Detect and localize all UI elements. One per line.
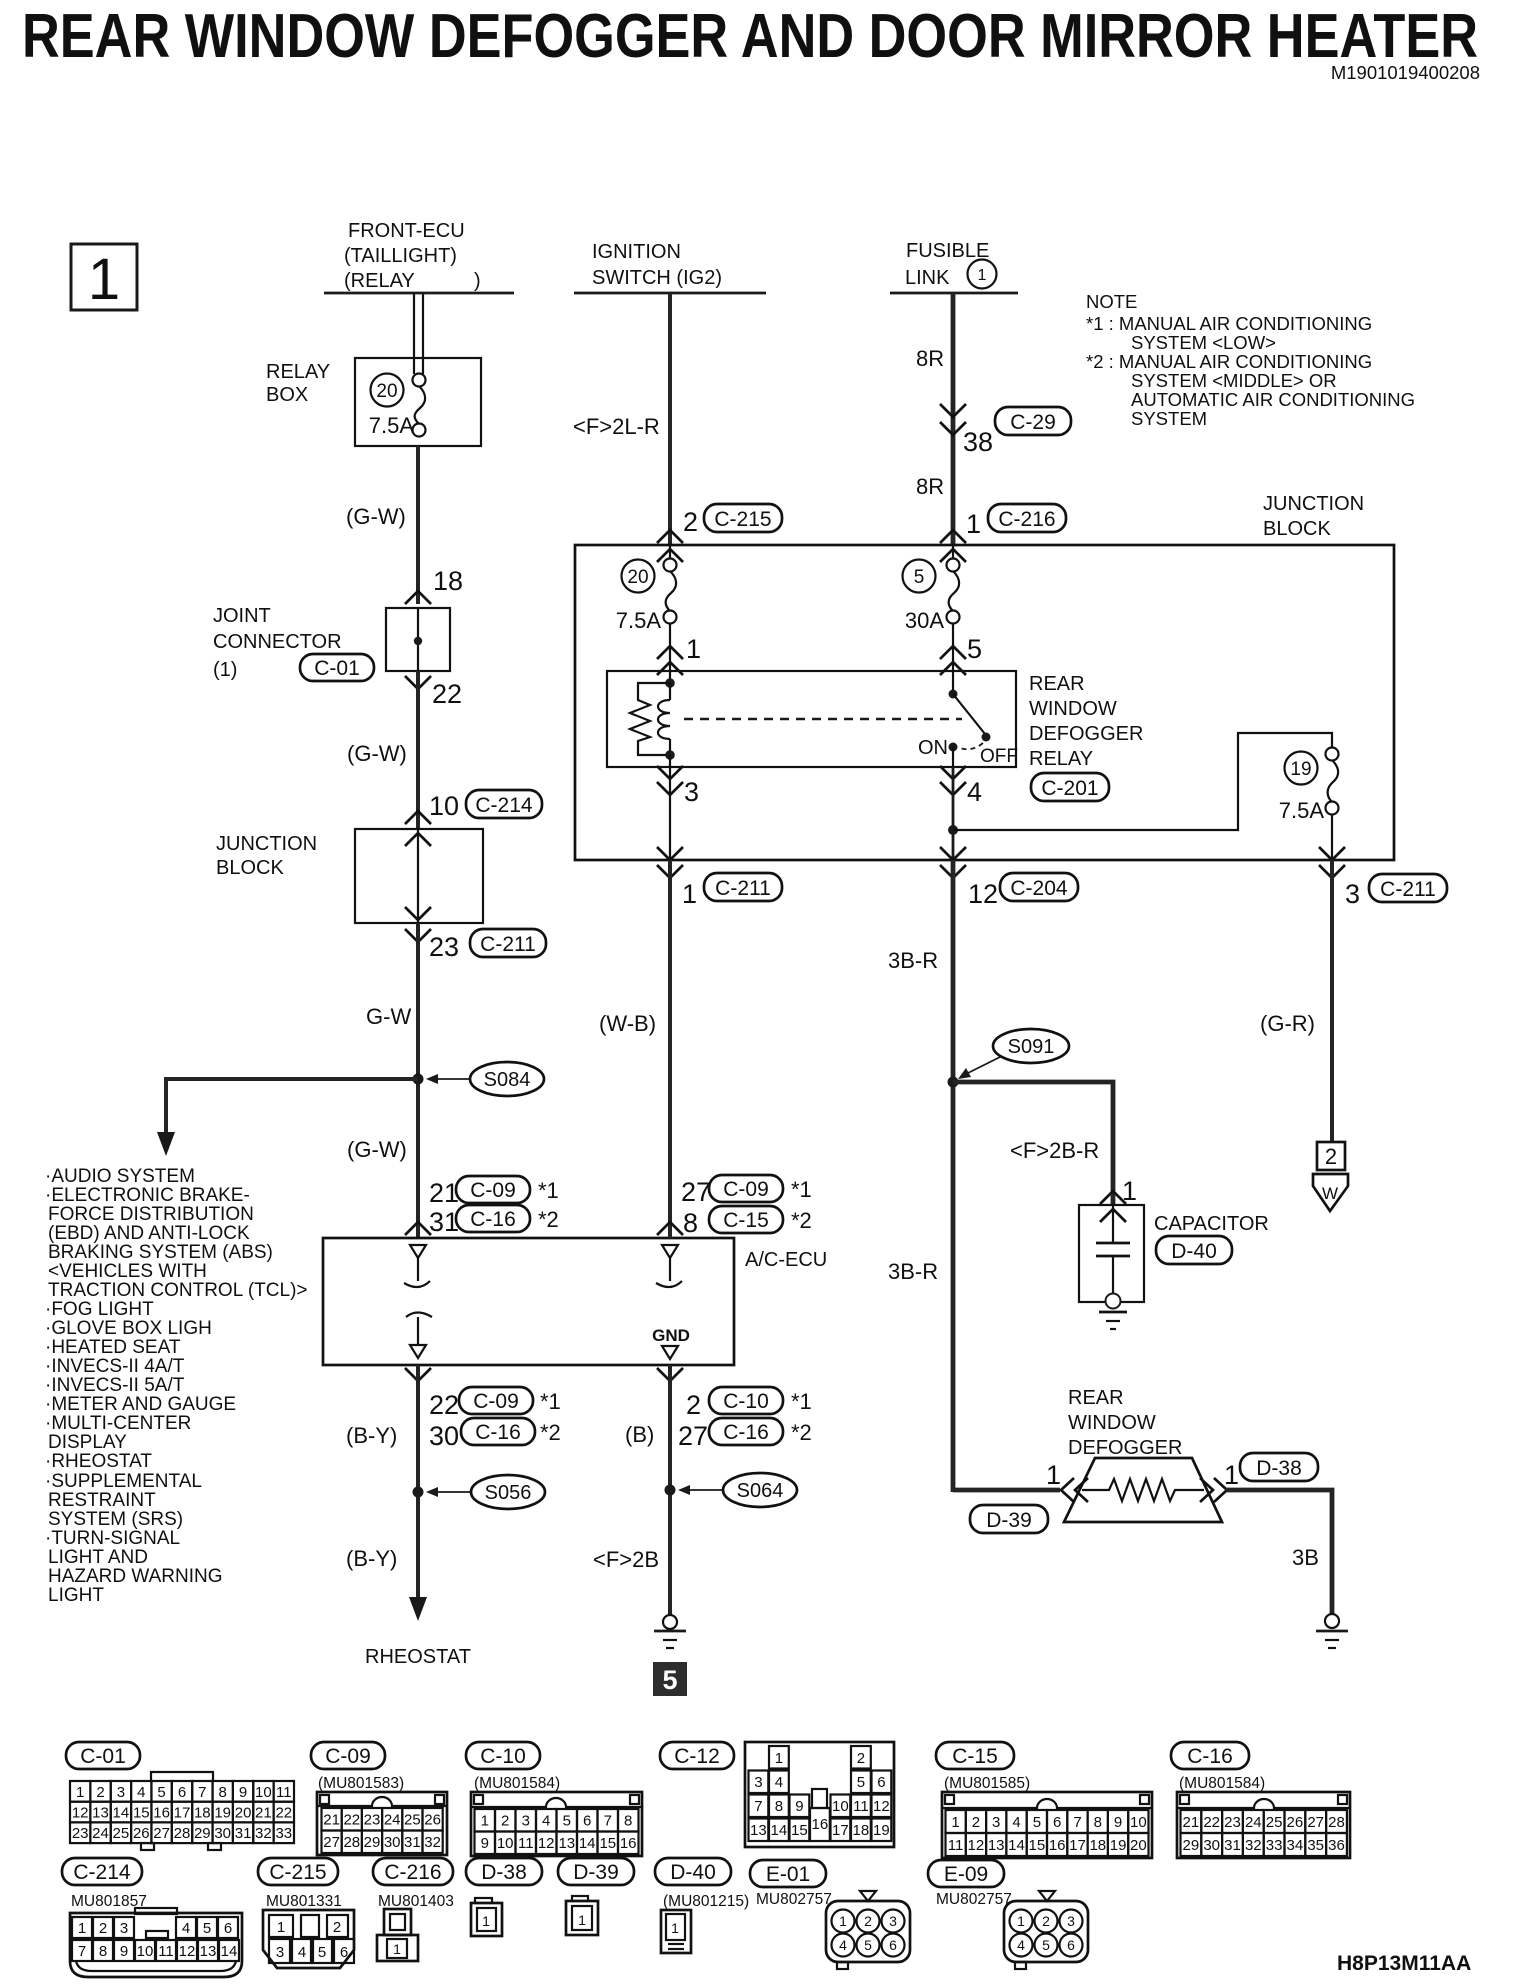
connector C-214 pin view [70,1908,242,1977]
svg-text:15: 15 [791,1822,808,1839]
splice S091 [948,1029,1070,1088]
svg-text:CONNECTOR: CONNECTOR [213,631,342,653]
relay box outline [355,358,481,446]
svg-text:23: 23 [429,932,459,962]
svg-text:13: 13 [92,1805,109,1822]
svg-text:21: 21 [255,1805,272,1822]
connector table badge D-40 [655,1858,731,1885]
RELAY BOX label [266,361,330,406]
svg-text:21: 21 [323,1812,340,1829]
connector table badge C-16 [1171,1742,1249,1769]
svg-text:18: 18 [433,566,463,596]
wire joint connector to junction block (G-W) [416,671,420,829]
svg-text:9: 9 [120,1943,128,1960]
svg-text:6: 6 [340,1944,348,1961]
svg-text:22: 22 [432,679,462,709]
svg-text:9: 9 [239,1784,247,1801]
svg-text:26: 26 [1287,1814,1304,1831]
svg-text:7.5A: 7.5A [616,608,662,633]
svg-text:<VEHICLES WITH: <VEHICLES WITH [48,1261,207,1282]
svg-text:FORCE DISTRIBUTION: FORCE DISTRIBUTION [48,1204,254,1225]
IGNITION SWITCH (IG2) label [592,241,722,289]
svg-text:DEFOGGER: DEFOGGER [1029,723,1143,745]
svg-text:S056: S056 [485,1482,532,1504]
svg-text:7: 7 [198,1784,206,1801]
svg-text:5: 5 [563,1813,571,1830]
svg-text:5: 5 [967,634,982,664]
svg-text:8: 8 [775,1798,783,1815]
NOTE block [1086,291,1415,429]
svg-text:12: 12 [72,1805,89,1822]
connector E-09 pin view [1004,1891,1088,1969]
svg-text:1: 1 [482,1913,490,1929]
svg-text:10: 10 [497,1835,514,1852]
svg-text:REAR: REAR [1068,1387,1124,1409]
connector C-10 pin view [471,1792,642,1856]
svg-text:8: 8 [99,1943,107,1960]
ignition switch supply bar [574,292,766,295]
svg-text:C-214: C-214 [73,1861,131,1884]
svg-text:6: 6 [889,1937,897,1953]
svg-text:20: 20 [235,1805,252,1822]
chevrons at C-29 crossing [940,404,966,435]
svg-text:5: 5 [914,567,925,588]
pins 21/31 with badges C-09 / C-16 [429,1176,559,1237]
svg-text:3B-R: 3B-R [888,1259,938,1284]
svg-text:19: 19 [214,1805,231,1822]
svg-text:2: 2 [96,1784,104,1801]
svg-text:C-16: C-16 [470,1208,516,1231]
svg-text:9: 9 [481,1835,489,1852]
svg-text:BLOCK: BLOCK [1263,518,1331,540]
svg-text:*2 : MANUAL AIR CONDITIONING: *2 : MANUAL AIR CONDITIONING [1086,351,1372,372]
svg-text:4: 4 [137,1784,145,1801]
relay coil and resistor [630,671,675,767]
svg-text:C-15: C-15 [952,1745,998,1768]
svg-text:·HEATED SEAT: ·HEATED SEAT [45,1337,181,1358]
svg-text:(MU801584): (MU801584) [1179,1775,1265,1792]
svg-text:ON: ON [918,737,948,759]
svg-text:32: 32 [1245,1837,1262,1854]
svg-text:1: 1 [839,1913,847,1929]
svg-text:32: 32 [424,1834,441,1851]
chevrons leaving junction block pin 3 C-211 [1319,847,1345,878]
connector table badge C-10 [466,1742,540,1769]
svg-text:7: 7 [78,1943,86,1960]
svg-text:17: 17 [1069,1837,1086,1854]
svg-text:·TURN-SIGNAL: ·TURN-SIGNAL [45,1528,180,1549]
svg-text:D-40: D-40 [670,1861,716,1884]
chevrons entering junction block (left) [405,811,431,846]
svg-text:23: 23 [72,1825,89,1842]
svg-text:2: 2 [683,507,698,537]
svg-text:(MU801215): (MU801215) [663,1893,749,1910]
svg-text:2: 2 [686,1390,701,1420]
svg-text:DEFOGGER: DEFOGGER [1068,1437,1182,1459]
connector table badge C-216 [373,1858,453,1885]
joint connector box [386,608,450,671]
ground symbol (defogger) [1316,1614,1348,1648]
relay actuation dashed line [684,718,962,720]
svg-text:A/C-ECU: A/C-ECU [745,1249,827,1271]
svg-text:9: 9 [795,1798,803,1815]
svg-text:19: 19 [1290,759,1311,780]
branch wire to capacitor [953,1082,1113,1205]
pin 2 and badge C-215 [683,504,782,537]
svg-text:RESTRAINT: RESTRAINT [48,1490,156,1511]
svg-text:W: W [1322,1184,1338,1203]
A/C-ECU internal contact (left pin out) [406,1313,432,1359]
connector table badge E-09 [928,1860,1004,1887]
svg-text:1: 1 [775,1750,783,1767]
svg-text:18: 18 [1089,1837,1106,1854]
svg-text:25: 25 [113,1825,130,1842]
splice S084 [413,1062,545,1096]
svg-text:10: 10 [1130,1814,1147,1831]
svg-text:*2: *2 [791,1420,812,1445]
svg-text:2: 2 [333,1919,341,1936]
svg-text:19: 19 [1110,1837,1127,1854]
svg-text:3B: 3B [1292,1545,1319,1570]
svg-text:16: 16 [620,1835,637,1852]
connector badge D-38 [1240,1453,1318,1481]
fuse 19 (7.5A) in junction block [1279,748,1339,861]
svg-text:4: 4 [1012,1814,1020,1831]
svg-text:NOTE: NOTE [1086,291,1137,312]
A/C-ECU box [323,1238,734,1365]
svg-text:1: 1 [1224,1460,1239,1490]
svg-text:C-10: C-10 [480,1745,526,1768]
svg-text:29: 29 [364,1834,381,1851]
svg-text:6: 6 [583,1813,591,1830]
svg-text:MU801331: MU801331 [266,1893,342,1910]
svg-text:30: 30 [429,1421,459,1451]
junction block box (main) [575,545,1394,860]
svg-text:14: 14 [113,1805,130,1822]
svg-text:31: 31 [235,1825,252,1842]
svg-text:6: 6 [1053,1814,1061,1831]
A/C-ECU internal contact (left pin in) [404,1245,430,1287]
svg-text:C-215: C-215 [269,1861,326,1884]
svg-text:C-09: C-09 [723,1178,769,1201]
svg-text:1: 1 [393,1941,401,1957]
connector table badge D-39 [558,1858,634,1885]
svg-text:26: 26 [133,1825,150,1842]
svg-text:4: 4 [182,1920,190,1937]
svg-text:29: 29 [1183,1837,1200,1854]
svg-text:*1: *1 [791,1389,812,1414]
svg-text:5: 5 [1033,1814,1041,1831]
connector table badge C-15 [936,1742,1014,1769]
svg-text:S064: S064 [737,1480,784,1502]
svg-text:18: 18 [853,1822,870,1839]
svg-text:C-29: C-29 [1010,411,1056,434]
chevrons into relay coil side [657,646,683,675]
svg-text:*2: *2 [540,1420,561,1445]
chevron out of A/C-ECU GND [657,1368,683,1381]
svg-text:·GLOVE BOX LIGH: ·GLOVE BOX LIGH [45,1318,212,1339]
svg-text:(MU801584): (MU801584) [474,1775,560,1792]
svg-text:11: 11 [158,1943,174,1960]
svg-text:(B): (B) [625,1422,654,1447]
svg-text:(G-W): (G-W) [347,741,407,766]
wire (W-B) junction block to A/C-ECU [668,860,672,1238]
svg-text:1: 1 [978,267,987,284]
svg-text:3: 3 [1345,879,1360,909]
FRONT-ECU (TAILLIGHT RELAY) power source label [344,220,481,292]
svg-text:·RHEOSTAT: ·RHEOSTAT [45,1451,152,1472]
svg-text:SYSTEM (SRS): SYSTEM (SRS) [48,1509,183,1530]
svg-text:25: 25 [1266,1814,1283,1831]
svg-text:21: 21 [1183,1814,1200,1831]
svg-text:15: 15 [1029,1837,1046,1854]
connector chevron out of C-01 [405,676,431,689]
svg-text:38: 38 [963,427,993,457]
pin 10 and badge C-214 [429,790,542,821]
svg-text:C-15: C-15 [723,1209,769,1232]
connector C-09 pin view [317,1792,447,1855]
svg-text:7: 7 [604,1813,612,1830]
pin 38 and badge C-29 [963,407,1071,457]
svg-text:18: 18 [194,1805,211,1822]
svg-text:30: 30 [1203,1837,1220,1854]
svg-text:3: 3 [889,1913,897,1929]
svg-text:3: 3 [120,1920,128,1937]
svg-text:2: 2 [864,1913,872,1929]
chevrons leaving junction block pin 1 C-211 [657,847,683,878]
branch wire to fuse 19 [953,733,1332,830]
svg-text:4: 4 [775,1774,783,1791]
svg-text:4: 4 [839,1937,847,1953]
svg-text:C-16: C-16 [1187,1745,1233,1768]
svg-text:C-211: C-211 [480,933,536,956]
svg-text:G-W: G-W [366,1004,411,1029]
svg-text:3: 3 [522,1813,530,1830]
svg-text:C-204: C-204 [1010,877,1068,900]
FRONT-ECU supply bar [324,292,514,295]
fusible link supply bar [890,292,1018,295]
svg-text:28: 28 [174,1825,191,1842]
svg-text:C-211: C-211 [715,877,771,900]
svg-text:·FOG LIGHT: ·FOG LIGHT [45,1299,154,1320]
splice S056 [413,1475,546,1509]
capacitor D-40 box and element [1079,1205,1144,1302]
svg-text:1: 1 [88,247,120,312]
chevrons leaving junction block (left) [405,907,431,942]
svg-text:C-01: C-01 [80,1745,126,1768]
svg-text:OFF: OFF [980,746,1018,767]
svg-text:(RELAY: (RELAY [344,270,415,292]
svg-text:·MULTI-CENTER: ·MULTI-CENTER [45,1413,191,1434]
svg-text:24: 24 [1245,1814,1262,1831]
svg-text:GND: GND [652,1326,690,1345]
svg-text:RELAY: RELAY [1029,748,1093,770]
connector C-216 pin view [377,1909,418,1961]
wire relay box to joint connector (G-W) [416,446,420,604]
svg-text:11: 11 [853,1798,869,1815]
svg-text:1: 1 [481,1813,489,1830]
svg-text:*2: *2 [791,1208,812,1233]
svg-text:23: 23 [364,1812,381,1829]
svg-text:7: 7 [1073,1814,1081,1831]
svg-text:3: 3 [1067,1913,1075,1929]
svg-text:MU802757: MU802757 [936,1891,1012,1908]
svg-text:CAPACITOR: CAPACITOR [1154,1213,1269,1235]
svg-text:S084: S084 [484,1069,531,1091]
svg-text:D-39: D-39 [986,1509,1032,1532]
svg-text:C-01: C-01 [314,657,360,680]
arrow to rheostat [409,1597,427,1621]
svg-text:6: 6 [1067,1937,1075,1953]
svg-text:(G-W): (G-W) [347,1137,407,1162]
svg-text:DISPLAY: DISPLAY [48,1432,127,1453]
chevrons into relay switch side [940,646,966,675]
svg-text:BOX: BOX [266,384,308,406]
svg-text:3: 3 [684,777,699,807]
svg-text:1: 1 [578,1912,586,1928]
svg-text:8: 8 [219,1784,227,1801]
svg-text:3: 3 [992,1814,1000,1831]
svg-text:10: 10 [137,1943,154,1960]
wire defogger to ground 3B [1226,1490,1332,1614]
svg-text:JUNCTION: JUNCTION [1263,493,1364,515]
svg-text:12: 12 [968,879,998,909]
svg-text:LIGHT AND: LIGHT AND [48,1547,148,1568]
connector D-40 pin view [661,1910,691,1953]
svg-text:REAR WINDOW DEFOGGER AND DOOR: REAR WINDOW DEFOGGER AND DOOR MIRROR HEA… [22,2,1478,71]
svg-text:22: 22 [429,1390,459,1420]
page marker box 5 [653,1662,687,1696]
svg-text:8: 8 [624,1813,632,1830]
svg-text:31: 31 [404,1834,421,1851]
svg-text:M1901019400208: M1901019400208 [1331,62,1480,83]
wire (G-R) to door mirror heater page [1330,860,1334,1142]
svg-text:11: 11 [518,1835,534,1852]
svg-text:22: 22 [275,1805,292,1822]
svg-text:(1): (1) [213,659,237,681]
svg-text:16: 16 [812,1816,829,1833]
svg-text:27: 27 [153,1825,170,1842]
fuse 20 (7.5A) in relay box [369,374,426,439]
svg-text:27: 27 [678,1421,708,1451]
svg-text:5: 5 [203,1920,211,1937]
svg-text:7.5A: 7.5A [1279,798,1325,823]
connector badge D-40 [1156,1236,1232,1264]
svg-text:29: 29 [194,1825,211,1842]
svg-text:(B-Y): (B-Y) [346,1423,397,1448]
svg-text:14: 14 [771,1822,788,1839]
connector C-01 pin view [70,1772,294,1850]
svg-text:(W-B): (W-B) [599,1011,656,1036]
svg-text:32: 32 [255,1825,272,1842]
svg-text:C-09: C-09 [473,1390,519,1413]
svg-text:2: 2 [99,1920,107,1937]
svg-text:2: 2 [857,1750,865,1767]
svg-text:JUNCTION: JUNCTION [216,833,317,855]
svg-text:8R: 8R [916,474,944,499]
A/C-ECU internal contact (right pin in) [656,1245,682,1287]
svg-text:C-09: C-09 [470,1179,516,1202]
svg-text:·INVECS-II 5A/T: ·INVECS-II 5A/T [45,1375,185,1396]
svg-text:13: 13 [200,1943,217,1960]
pins 22/30 with badges C-09 / C-16 [429,1387,561,1451]
svg-text:13: 13 [558,1835,575,1852]
svg-text:*1 : MANUAL AIR CONDITIONING: *1 : MANUAL AIR CONDITIONING [1086,313,1372,334]
svg-text:7.5A: 7.5A [369,413,415,438]
pins 27/8 with badges C-09 / C-15 [681,1175,812,1238]
svg-text:27: 27 [1307,1814,1324,1831]
svg-text:27: 27 [681,1177,711,1207]
svg-text:14: 14 [1008,1837,1025,1854]
svg-text:3: 3 [754,1774,762,1791]
svg-text:24: 24 [384,1812,401,1829]
chevron into A/C-ECU left pin [405,1222,431,1235]
wire A/C-ECU to rheostat [416,1365,420,1600]
svg-text:E-01: E-01 [766,1863,810,1886]
chevrons into capacitor [1100,1191,1126,1222]
svg-text:LINK: LINK [905,267,950,289]
svg-text:31: 31 [429,1207,459,1237]
svg-text:C-09: C-09 [325,1745,371,1768]
svg-text:*1: *1 [791,1177,812,1202]
svg-text:D-38: D-38 [481,1861,527,1884]
svg-text:C-16: C-16 [723,1421,769,1444]
svg-text:C-216: C-216 [998,508,1055,531]
connector D-38 pin view [471,1898,502,1936]
svg-text:17: 17 [832,1822,849,1839]
svg-text:23: 23 [1224,1814,1241,1831]
connector chevron into C-01 [405,591,431,604]
svg-text:33: 33 [275,1825,292,1842]
svg-text:1: 1 [76,1784,84,1801]
svg-text:C-10: C-10 [723,1390,769,1413]
svg-text:3: 3 [276,1944,284,1961]
svg-text:12: 12 [179,1943,196,1960]
svg-text:BRAKING SYSTEM (ABS): BRAKING SYSTEM (ABS) [48,1242,273,1263]
svg-text:*2: *2 [538,1207,559,1232]
connector table badge E-01 [750,1860,826,1887]
chevrons entering junction block at C-215 [657,530,683,562]
svg-text:SYSTEM <LOW>: SYSTEM <LOW> [1131,332,1276,353]
svg-text:SYSTEM <MIDDLE> OR: SYSTEM <MIDDLE> OR [1131,370,1337,391]
svg-text:RHEOSTAT: RHEOSTAT [365,1646,471,1668]
svg-text:H8P13M11AA: H8P13M11AA [1337,1952,1471,1975]
relay switch contacts ON/OFF [918,671,1018,767]
connector table badge C-09 [311,1742,385,1769]
svg-text:·SUPPLEMENTAL: ·SUPPLEMENTAL [45,1471,202,1492]
svg-text:26: 26 [424,1812,441,1829]
ground symbol (body ground) [654,1615,686,1648]
svg-text:<F>2L-R: <F>2L-R [573,414,660,439]
svg-text:24: 24 [92,1825,109,1842]
svg-text:20: 20 [376,381,397,402]
wire A/C-ECU GND to ground [668,1365,672,1615]
svg-text:1: 1 [78,1920,86,1937]
svg-text:D-39: D-39 [573,1861,619,1884]
svg-text:S091: S091 [1008,1036,1055,1058]
pin 12 and badge C-204 [968,873,1078,909]
svg-text:IGNITION: IGNITION [592,241,681,263]
svg-text:1: 1 [671,1920,679,1936]
fuse 5 (30A) in junction block [903,545,960,671]
svg-text:10: 10 [255,1784,272,1801]
svg-text:E-09: E-09 [944,1863,988,1886]
JOINT CONNECTOR (1) label [213,605,342,681]
connector badge C-201 [1031,773,1109,801]
pin 1 and badge C-211 [682,873,782,909]
chevrons out of relay pin 4 [940,766,966,795]
svg-text:5: 5 [662,1665,677,1695]
